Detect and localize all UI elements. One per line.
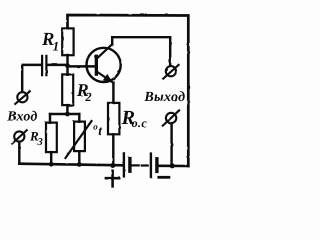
svg-text:3: 3 xyxy=(37,137,43,148)
junction dot: Roc ground xyxy=(110,163,115,168)
label Roc xyxy=(121,107,148,130)
terminal: input bottom xyxy=(12,130,27,143)
resistor R1 xyxy=(62,28,73,55)
wire: emitter to Roc xyxy=(112,83,114,103)
junction dot: output ground xyxy=(170,163,175,168)
wire: R3 branch xyxy=(49,114,51,123)
wire: thermistor branch xyxy=(78,114,80,122)
terminal: output bottom xyxy=(163,110,179,125)
wire: divider T-bar xyxy=(50,113,79,115)
terminal: input top xyxy=(15,91,30,104)
resistor Roc xyxy=(108,103,119,134)
capacitor C1 xyxy=(42,56,46,75)
junction dot: thermistor ground xyxy=(77,162,82,167)
label t° xyxy=(93,122,103,139)
wire: ground rail right section xyxy=(158,165,188,168)
label R2 xyxy=(76,80,92,104)
wire: thermistor to ground rail xyxy=(78,151,80,164)
junction dot: base node xyxy=(65,63,70,68)
svg-text:2: 2 xyxy=(84,90,91,104)
wire: input coupling (capacitor to base bus) xyxy=(48,64,68,66)
wire: input bottom to ground rail xyxy=(18,142,20,164)
terminal: output top xyxy=(163,65,178,79)
label − (battery negative) xyxy=(159,176,169,179)
resistor R3 xyxy=(46,123,57,153)
svg-text:1: 1 xyxy=(53,39,60,54)
svg-text:Выход: Выход xyxy=(143,90,185,105)
wire: output bottom to ground rail xyxy=(170,123,172,166)
wire: base bus (R1 bottom to R2 top) xyxy=(66,55,68,75)
resistor R2 xyxy=(62,74,73,105)
wire: ground rail left section xyxy=(19,164,123,166)
thermistor Rt xyxy=(74,122,85,152)
label Выход xyxy=(143,90,185,105)
svg-text:Вход: Вход xyxy=(6,110,37,125)
thermistor diagonal stroke xyxy=(66,121,92,158)
label + (battery positive) xyxy=(106,171,119,187)
transistor VT1 xyxy=(87,44,121,83)
junction dot: divider node xyxy=(65,112,70,117)
wire: R3 to ground rail xyxy=(50,152,52,164)
wire: Roc to ground rail xyxy=(112,134,114,165)
svg-text:t: t xyxy=(98,123,103,138)
wire: collector to output top terminal xyxy=(112,37,170,66)
junction dot: R3 ground xyxy=(49,162,54,167)
svg-text:о.с: о.с xyxy=(132,116,148,130)
wire: R2 bottom to divider bar xyxy=(66,105,68,114)
wire: supply loop (R1 top, top rail, right frame) xyxy=(68,15,189,166)
wire: base lead xyxy=(68,65,95,67)
wire: input top lead xyxy=(22,65,41,92)
label R3 xyxy=(29,128,43,147)
label R1 xyxy=(41,30,59,54)
label Вход xyxy=(6,110,37,125)
battery B1 (two cells with dashed link) xyxy=(124,153,157,176)
